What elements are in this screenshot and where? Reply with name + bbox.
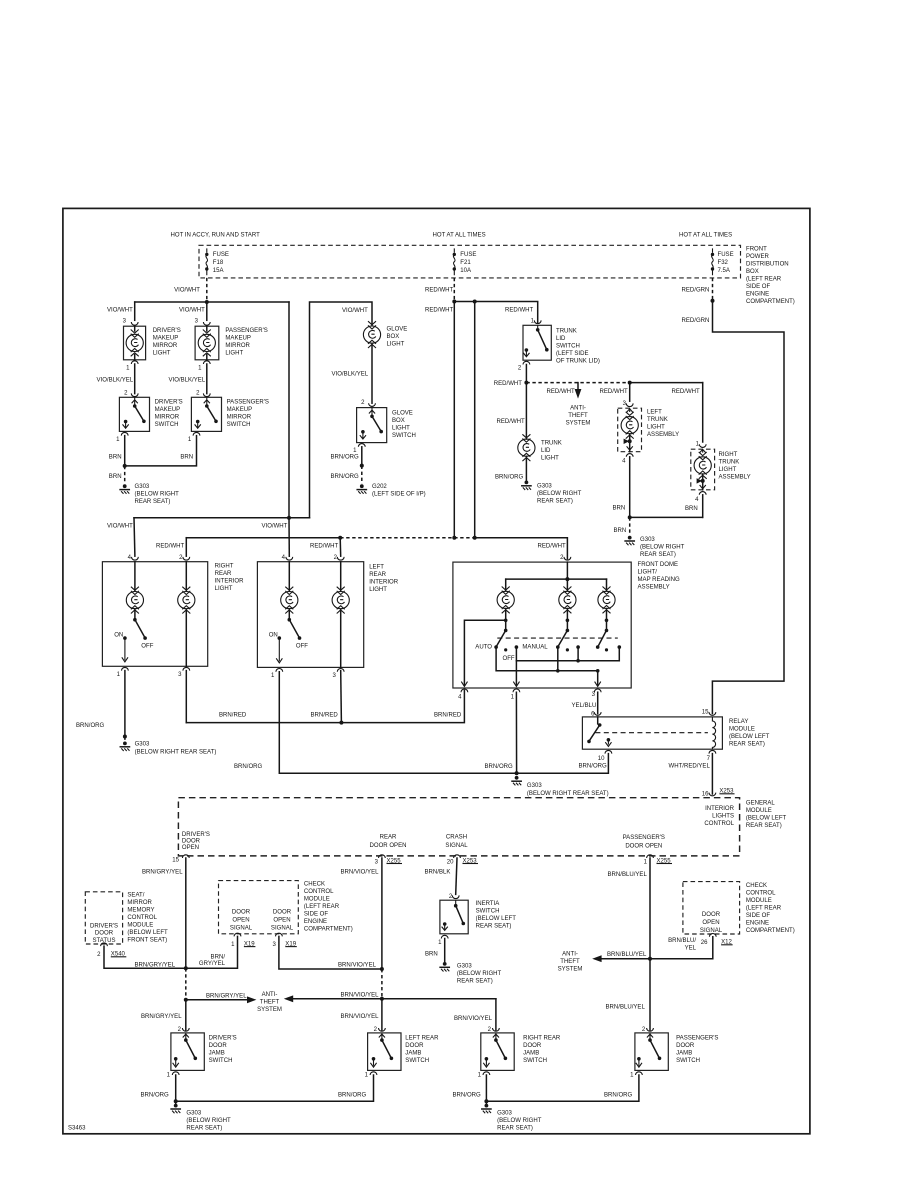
wire BRN driver switch to ground junction — [124, 436, 126, 466]
wire BRN left assembly down — [629, 457, 631, 518]
wire VIO/WHT bus y302 — [135, 301, 289, 303]
svg-text:BRN: BRN — [425, 952, 438, 958]
node junction BRN/RED left rear pin3 — [339, 721, 343, 725]
svg-text:LIGHT: LIGHT — [647, 425, 665, 431]
svg-text:DRIVER'S: DRIVER'S — [155, 400, 183, 406]
svg-text:FRONT DOME: FRONT DOME — [638, 562, 679, 568]
pin 1 passenger jamb — [636, 1072, 643, 1075]
svg-text:ON: ON — [114, 633, 123, 639]
svg-text:HOT IN ACCY, RUN AND START: HOT IN ACCY, RUN AND START — [171, 233, 261, 239]
svg-text:(BELOW RIGHT: (BELOW RIGHT — [186, 1118, 231, 1124]
svg-text:MIRROR: MIRROR — [153, 343, 178, 349]
svg-text:BRN: BRN — [614, 528, 627, 534]
svg-text:15: 15 — [702, 710, 709, 716]
wire BRN/BLU/YEL X12 to passenger junction — [650, 937, 713, 959]
driver's makeup mirror switch box — [119, 397, 149, 431]
wire dome pin4 internal — [461, 620, 505, 686]
svg-text:BRN/VIO/YEL: BRN/VIO/YEL — [454, 1016, 493, 1022]
pin 10 relay — [605, 750, 612, 753]
svg-text:JAMB: JAMB — [209, 1050, 225, 1056]
wire dome pin3 internal — [595, 671, 601, 687]
svg-text:MIRROR: MIRROR — [225, 343, 250, 349]
node junction BRN trunk — [628, 515, 632, 519]
node splice glove ground — [360, 464, 364, 468]
driver's makeup mirror switch contacts — [123, 397, 146, 428]
svg-text:DOOR: DOOR — [405, 1043, 424, 1049]
dome bulb left — [497, 587, 514, 614]
svg-text:VIO/WHT: VIO/WHT — [342, 308, 368, 314]
svg-text:REAR SEAT): REAR SEAT) — [640, 552, 676, 558]
wire driver jamb feed down — [185, 1000, 187, 1030]
svg-text:PASSENGER'S: PASSENGER'S — [227, 400, 269, 406]
svg-text:SWITCH: SWITCH — [676, 1058, 700, 1064]
node junction driver ground — [174, 1099, 178, 1103]
svg-text:LID: LID — [541, 448, 551, 454]
svg-text:ASSEMBLY: ASSEMBLY — [719, 474, 751, 480]
svg-text:VIO/WHT: VIO/WHT — [174, 288, 200, 294]
wire RED/WHT F21 trunk down — [453, 302, 455, 538]
wire RED/WHT down to right rear light pin2 — [185, 538, 187, 557]
node junction F18 to bus — [205, 300, 209, 304]
svg-text:BRN: BRN — [613, 506, 626, 512]
svg-text:S3463: S3463 — [68, 1126, 86, 1132]
svg-text:MODULE: MODULE — [127, 922, 153, 928]
svg-text:MIRROR: MIRROR — [227, 415, 252, 421]
wire manual mid drop — [577, 647, 579, 661]
svg-text:SYSTEM: SYSTEM — [566, 421, 591, 427]
wire dashed driver jamb splice — [185, 968, 187, 1000]
dome bulb middle — [559, 587, 576, 614]
svg-text:BOX: BOX — [392, 418, 405, 424]
wire BRN/VIO/YEL module pin3 down — [381, 858, 383, 969]
svg-text:DOOR OPEN: DOOR OPEN — [625, 843, 662, 849]
driver's makeup mirror light box — [124, 326, 146, 360]
left trunk assembly bulb and diode — [621, 408, 638, 452]
trunk lid switch box — [523, 325, 551, 360]
node junction F21 trunk at bus — [452, 536, 456, 540]
passenger's makeup mirror light box — [195, 326, 219, 360]
fuse F18 15A — [205, 248, 208, 275]
svg-text:BRN/ORG: BRN/ORG — [141, 1092, 170, 1098]
pin 1 driver jamb — [172, 1072, 179, 1075]
pin 3 right rear interior light — [183, 667, 190, 670]
anti-theft arrow left rear — [284, 995, 496, 1002]
wire BRN right assembly down — [702, 495, 704, 518]
svg-text:G303: G303 — [457, 964, 472, 970]
svg-text:SIGNAL: SIGNAL — [230, 926, 253, 932]
svg-text:VIO/WHT: VIO/WHT — [107, 308, 133, 314]
wire RED/WHT fuse F21 down (dashed) — [453, 278, 455, 302]
wire VIO/BLK/YEL glove — [371, 343, 373, 403]
wire VIO/WHT fuse F18 down (dashed) — [206, 278, 208, 302]
svg-text:DOOR: DOOR — [182, 839, 201, 845]
pin 2 trunk lid switch — [523, 361, 530, 364]
svg-text:BRN/ORG: BRN/ORG — [579, 764, 608, 770]
wire left rear pin1 down to ground bus — [279, 672, 516, 774]
svg-text:(LEFT REAR: (LEFT REAR — [304, 904, 340, 910]
svg-text:HOT AT ALL TIMES: HOT AT ALL TIMES — [679, 233, 732, 239]
svg-text:TRUNK: TRUNK — [719, 459, 740, 465]
wire WHT/RED/YEL relay pin7 to module — [711, 754, 713, 794]
right rear interior light box — [102, 562, 207, 667]
dome auto bus wire — [496, 647, 598, 671]
svg-text:VIO/WHT: VIO/WHT — [179, 308, 205, 314]
svg-text:FUSE: FUSE — [213, 252, 229, 258]
wire VIO/WHT down to right rear interior light — [133, 518, 136, 556]
wire left rear jamb feed down — [381, 999, 383, 1030]
ground G303 right rear jamb — [482, 1101, 491, 1113]
svg-text:REAR SEAT): REAR SEAT) — [135, 499, 171, 505]
svg-text:(BELOW RIGHT: (BELOW RIGHT — [457, 971, 502, 977]
svg-text:BRN/ORG: BRN/ORG — [338, 1092, 367, 1098]
svg-text:RIGHT: RIGHT — [719, 452, 738, 458]
svg-text:REAR: REAR — [215, 571, 232, 577]
anti-theft branch arrow down — [575, 383, 582, 399]
seat mirror memory control module dashed box — [85, 892, 122, 944]
svg-text:RED/WHT: RED/WHT — [547, 389, 576, 395]
svg-text:SWITCH: SWITCH — [556, 343, 580, 349]
svg-text:BRN/VIO/YEL: BRN/VIO/YEL — [341, 1014, 380, 1020]
svg-text:WHT/RED/YEL: WHT/RED/YEL — [669, 764, 711, 770]
svg-text:BRN/RED: BRN/RED — [434, 712, 462, 718]
front power distribution box (dashed fuse strip) — [199, 245, 741, 278]
wire to right trunk assembly pin 1 — [702, 383, 704, 442]
svg-text:G303: G303 — [135, 741, 150, 747]
ground G303 right rear light — [120, 737, 129, 752]
svg-text:COMPARTMENT): COMPARTMENT) — [304, 927, 353, 933]
passenger's makeup mirror switch contacts — [195, 397, 218, 428]
left rear interior light switch — [276, 609, 301, 663]
svg-text:LIGHT/: LIGHT/ — [638, 569, 658, 575]
svg-text:RIGHT: RIGHT — [215, 564, 234, 570]
svg-text:ENGINE: ENGINE — [746, 921, 769, 927]
svg-text:FUSE: FUSE — [460, 252, 476, 258]
pin 4 left trunk assembly — [626, 454, 633, 457]
svg-text:TRUNK: TRUNK — [556, 328, 577, 334]
svg-text:16: 16 — [702, 791, 709, 797]
svg-text:PASSENGER'S: PASSENGER'S — [623, 835, 665, 841]
svg-text:CRASH: CRASH — [446, 834, 467, 840]
svg-text:(BELOW LEFT: (BELOW LEFT — [476, 916, 517, 922]
svg-text:BOX: BOX — [746, 269, 759, 275]
svg-text:G202: G202 — [372, 484, 387, 490]
pin 1 left rear interior light — [276, 669, 283, 672]
left rear door jamb switch contacts — [370, 1033, 393, 1067]
pin 1 driver makeup switch — [121, 432, 128, 435]
svg-text:LEFT: LEFT — [369, 565, 384, 571]
node junction F21 — [452, 300, 456, 304]
wire BRN dashed to ground — [124, 466, 126, 484]
wire X19 pin1 to driver junction — [186, 936, 238, 968]
wire RED/WHT down x474.7 — [474, 302, 476, 538]
svg-text:BRN/ORG: BRN/ORG — [604, 1092, 633, 1098]
svg-text:MAP READING: MAP READING — [638, 577, 681, 583]
svg-text:DOOR: DOOR — [702, 912, 721, 918]
svg-text:REAR SEAT): REAR SEAT) — [746, 823, 782, 829]
svg-text:SWITCH: SWITCH — [227, 422, 251, 428]
node junction auto right — [596, 669, 600, 673]
svg-text:DOOR: DOOR — [232, 910, 251, 916]
svg-text:VIO/BLK/YEL: VIO/BLK/YEL — [169, 378, 206, 384]
pin 1 passenger makeup light — [203, 361, 210, 364]
left trunk light assembly dashed box — [618, 408, 642, 452]
svg-text:BRN/GRY/YEL: BRN/GRY/YEL — [206, 993, 247, 999]
wire dome pin1 internal — [513, 661, 519, 687]
wire BRN inertia to ground — [444, 939, 446, 962]
svg-text:TRUNK: TRUNK — [541, 441, 562, 447]
svg-text:DISTRIBUTION: DISTRIBUTION — [746, 261, 789, 267]
svg-text:REAR SEAT): REAR SEAT) — [186, 1125, 222, 1131]
passenger's makeup mirror switch box — [191, 397, 221, 431]
svg-text:OFF: OFF — [141, 643, 153, 649]
svg-text:ON: ON — [269, 633, 278, 639]
svg-text:INERTIA: INERTIA — [476, 901, 501, 907]
node junction left rear door signal — [380, 967, 384, 971]
svg-text:G303: G303 — [135, 484, 150, 490]
wire RED/GRN route right and down — [712, 301, 784, 714]
wire BRN/ORG relay pin10 to ground — [517, 754, 609, 774]
fuse F32 7.5A — [711, 248, 714, 275]
wire BRN/ORG link to left rear jamb — [176, 1075, 374, 1101]
svg-text:CONTROL: CONTROL — [746, 891, 776, 897]
svg-text:BRN/ORG: BRN/ORG — [453, 1092, 482, 1098]
svg-text:(LEFT SIDE: (LEFT SIDE — [556, 351, 588, 357]
ground G303 inertia — [440, 962, 449, 972]
trunk lid light bulb — [518, 434, 535, 461]
svg-text:SIGNAL: SIGNAL — [700, 928, 723, 934]
pin 7 relay — [709, 750, 716, 753]
svg-text:RED/WHT: RED/WHT — [497, 419, 526, 425]
fuse F21 10A — [453, 248, 456, 275]
svg-text:ANTI-: ANTI- — [562, 952, 578, 958]
svg-text:BRN/BLU/YEL: BRN/BLU/YEL — [608, 872, 648, 878]
check control module right dashed box — [683, 882, 740, 934]
svg-text:RED/WHT: RED/WHT — [425, 308, 454, 314]
svg-text:MEMORY: MEMORY — [127, 907, 154, 913]
svg-text:(BELOW RIGHT: (BELOW RIGHT — [640, 544, 685, 550]
svg-text:VIO/WHT: VIO/WHT — [107, 524, 133, 530]
wire BRN/ORG right rear jamb to ground — [485, 1075, 487, 1101]
svg-text:DRIVER'S: DRIVER'S — [90, 923, 118, 929]
svg-text:ASSEMBLY: ASSEMBLY — [638, 584, 670, 590]
right rear door jamb switch contacts — [483, 1033, 507, 1067]
glove box light switch contacts — [360, 408, 383, 439]
svg-text:RELAY: RELAY — [729, 719, 748, 725]
svg-text:BRN/VIO/YEL: BRN/VIO/YEL — [338, 963, 377, 969]
svg-text:CONTROL: CONTROL — [704, 821, 734, 827]
svg-text:MAKEUP: MAKEUP — [153, 336, 179, 342]
pin 3 check module with X19 — [276, 933, 283, 936]
svg-text:BRN/VIO/YEL: BRN/VIO/YEL — [341, 869, 380, 875]
wire BRN/RED right rear pin3 down — [185, 671, 187, 723]
node junction driver door signal — [184, 966, 188, 970]
svg-text:OFF: OFF — [296, 643, 308, 649]
svg-text:JAMB: JAMB — [523, 1050, 539, 1056]
node junction x474.7 at bus — [473, 536, 477, 540]
driver's makeup mirror light bulb — [126, 326, 143, 360]
wire BRN/RED bus — [186, 690, 464, 722]
svg-text:SWITCH: SWITCH — [476, 909, 500, 915]
svg-text:SIDE OF: SIDE OF — [746, 913, 770, 919]
svg-text:BRN: BRN — [180, 455, 193, 461]
wire RED/WHT down to left rear light pin2 — [339, 538, 342, 557]
right rear door jamb switch box — [481, 1033, 514, 1071]
node junction auto mid — [556, 669, 560, 673]
svg-text:OFF: OFF — [503, 656, 515, 662]
node junction left rear light pin2 — [338, 536, 342, 540]
svg-text:COMPARTMENT): COMPARTMENT) — [746, 928, 795, 934]
ground G303 main — [512, 776, 521, 786]
svg-text:MIRROR: MIRROR — [127, 900, 152, 906]
wire BRN/BLU/YEL module pin1 down — [649, 858, 651, 959]
svg-text:REAR SEAT): REAR SEAT) — [497, 1125, 533, 1131]
pin 2 seat module with X540 — [101, 943, 108, 946]
svg-text:RED/GRN: RED/GRN — [682, 288, 710, 294]
svg-text:MODULE: MODULE — [746, 898, 772, 904]
pin 4 dome — [461, 689, 468, 692]
svg-text:LEFT: LEFT — [647, 410, 662, 416]
right rear interior light switch — [122, 609, 147, 662]
wire VIO/WHT trunk down x289 — [288, 302, 290, 518]
svg-text:DRIVER'S: DRIVER'S — [182, 832, 210, 838]
wire VIO/WHT down to left rear interior light — [288, 518, 290, 556]
node junction VIO/WHT trunk at bus2 — [287, 516, 291, 520]
svg-text:RED/WHT: RED/WHT — [672, 389, 701, 395]
svg-text:SIGNAL: SIGNAL — [271, 926, 294, 932]
wire BRN passenger link — [125, 436, 197, 466]
left rear interior light bulb 1 — [281, 562, 298, 614]
svg-text:LEFT REAR: LEFT REAR — [405, 1035, 439, 1041]
svg-text:REAR SEAT): REAR SEAT) — [729, 741, 765, 747]
wire BRN/GRY/YEL seat module to junction — [104, 946, 186, 968]
svg-text:MODULE: MODULE — [729, 726, 755, 732]
wire BRN/ORG link to passenger jamb — [486, 1075, 639, 1101]
svg-text:DOOR: DOOR — [523, 1043, 542, 1049]
svg-text:G303: G303 — [497, 1110, 512, 1116]
wire left rear pin3 to bus — [340, 671, 343, 723]
svg-text:BRN/BLU/YEL: BRN/BLU/YEL — [606, 1004, 646, 1010]
svg-text:BRN/RED: BRN/RED — [219, 712, 247, 718]
dome manual bus wire — [516, 647, 619, 661]
svg-text:LIGHT: LIGHT — [369, 587, 387, 593]
pin 4 right trunk assembly — [699, 492, 706, 495]
svg-text:OPEN: OPEN — [232, 918, 249, 924]
node splice left rear antitheft — [380, 997, 384, 1001]
node junction manual mid — [576, 659, 580, 663]
dome bulb right — [598, 587, 615, 614]
pin 1 driver makeup light — [131, 361, 138, 364]
svg-text:26: 26 — [701, 940, 708, 946]
check control module left dashed box — [219, 881, 299, 934]
svg-text:COMPARTMENT): COMPARTMENT) — [746, 299, 795, 305]
general module dashed box — [178, 798, 739, 856]
passenger's door jamb switch box — [635, 1033, 668, 1071]
anti-theft arrow driver — [186, 996, 257, 1003]
svg-text:(LEFT REAR: (LEFT REAR — [746, 276, 782, 282]
svg-text:ANTI-: ANTI- — [570, 406, 586, 412]
svg-text:BRN/ORG: BRN/ORG — [331, 455, 360, 461]
svg-text:REAR SEAT): REAR SEAT) — [457, 979, 493, 985]
wire VIO/WHT up-and-over to glove box light — [310, 302, 373, 518]
svg-text:BRN: BRN — [109, 474, 122, 480]
wire VIO/BLK/YEL passenger — [206, 364, 208, 394]
svg-text:DOOR: DOOR — [273, 910, 292, 916]
driver's door jamb switch box — [171, 1033, 204, 1071]
wire dashed RED/WHT to left trunk assembly — [526, 382, 629, 384]
svg-text:YEL: YEL — [685, 945, 697, 951]
left rear interior light box — [257, 562, 363, 668]
svg-text:JAMB: JAMB — [676, 1050, 692, 1056]
svg-text:LIGHT: LIGHT — [719, 467, 737, 473]
svg-text:VIO/WHT: VIO/WHT — [262, 524, 288, 530]
svg-text:VIO/BLK/YEL: VIO/BLK/YEL — [97, 378, 134, 384]
wire RED/GRN fuse F32 down (dashed) — [712, 278, 714, 300]
svg-text:BRN/ORG: BRN/ORG — [485, 764, 514, 770]
node junction right rear ground — [484, 1099, 488, 1103]
svg-text:CONTROL: CONTROL — [127, 915, 157, 921]
pin 3 left rear interior light — [337, 669, 344, 672]
svg-text:BRN: BRN — [685, 506, 698, 512]
anti-theft arrow passenger — [592, 955, 650, 962]
svg-text:DOOR OPEN: DOOR OPEN — [370, 843, 407, 849]
svg-text:(BELOW LEFT: (BELOW LEFT — [127, 930, 168, 936]
svg-text:(LEFT SIDE OF I/P): (LEFT SIDE OF I/P) — [372, 492, 426, 498]
svg-text:FUSE: FUSE — [718, 252, 734, 258]
wire RED/WHT trunk lid light — [525, 383, 527, 439]
svg-text:VIO/BLK/YEL: VIO/BLK/YEL — [332, 371, 369, 377]
wire to left trunk assembly pin 3 — [629, 383, 631, 402]
wire BRN/GRY/YEL module pin15 down — [185, 858, 187, 968]
svg-text:ENGINE: ENGINE — [746, 291, 769, 297]
svg-text:RED/WHT: RED/WHT — [425, 288, 454, 294]
svg-text:CHECK: CHECK — [304, 882, 325, 888]
svg-text:LIGHT: LIGHT — [387, 342, 405, 348]
svg-text:SIDE OF: SIDE OF — [304, 912, 328, 918]
svg-text:BRN: BRN — [109, 455, 122, 461]
svg-text:OPEN: OPEN — [273, 918, 290, 924]
pin 1 right rear interior light — [122, 667, 129, 670]
svg-text:(LEFT REAR: (LEFT REAR — [746, 906, 782, 912]
glove box light switch box — [357, 408, 387, 443]
svg-text:F18: F18 — [213, 260, 224, 266]
node BRN junction — [123, 464, 127, 468]
svg-text:G303: G303 — [186, 1110, 201, 1116]
node junction trunk feed — [524, 381, 528, 385]
svg-text:(BELOW LEFT: (BELOW LEFT — [746, 816, 787, 822]
passenger's door jamb switch contacts — [636, 1033, 662, 1067]
pin 1 dome — [513, 689, 520, 692]
svg-text:SEAT/: SEAT/ — [127, 892, 144, 898]
svg-text:LIGHT: LIGHT — [215, 586, 233, 592]
svg-text:OPEN: OPEN — [182, 845, 199, 851]
passenger's makeup mirror light bulb — [198, 326, 215, 360]
svg-text:(BELOW RIGHT: (BELOW RIGHT — [135, 492, 180, 498]
pin 26 check module right with X12 — [709, 934, 716, 937]
svg-text:ANTI-: ANTI- — [262, 992, 278, 998]
svg-text:RED/WHT: RED/WHT — [156, 544, 185, 550]
svg-text:LIGHT: LIGHT — [541, 456, 559, 462]
svg-text:HOT AT ALL TIMES: HOT AT ALL TIMES — [433, 233, 486, 239]
svg-text:BRN/: BRN/ — [211, 955, 226, 961]
left rear interior light bulb 2 — [332, 562, 349, 668]
wire BRN dashed to ground — [629, 517, 631, 535]
svg-text:(BELOW LEFT: (BELOW LEFT — [729, 734, 770, 740]
svg-text:AUTO: AUTO — [475, 645, 492, 651]
pin 1 right rear jamb — [483, 1072, 490, 1075]
node splice right rear ground — [123, 735, 127, 739]
svg-text:TRUNK: TRUNK — [647, 417, 668, 423]
node junction F32 — [711, 299, 715, 303]
